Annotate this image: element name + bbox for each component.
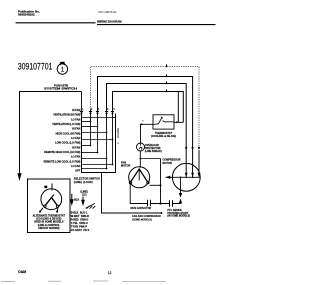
wire drop to thermostat: [177, 92, 179, 123]
alternate thermostat dial: [39, 184, 62, 213]
svg-text:3: 3: [107, 109, 109, 111]
footer scan marks: [1, 280, 166, 283]
svg-text:LO FAN: LO FAN: [71, 165, 80, 168]
svg-text:HI FAN: HI FAN: [72, 146, 80, 149]
inner verticals: [91, 122, 113, 169]
wire thermostat left: [141, 124, 154, 143]
connector down arrow: [179, 193, 182, 198]
PTC label: [167, 209, 190, 218]
switch feed wires: [82, 92, 113, 140]
svg-text:P/N 13971A0: P/N 13971A0: [98, 10, 116, 14]
svg-text:309107701: 309107701: [18, 62, 53, 73]
svg-text:LO FAN: LO FAN: [71, 118, 80, 121]
svg-text:1: 1: [61, 67, 65, 74]
svg-text:LO FAN: LO FAN: [71, 137, 80, 140]
header rule right: [97, 24, 216, 26]
wire cap2 to connector: [173, 200, 181, 204]
node drops on loop tops to thermostat: [166, 64, 168, 91]
legend color code: [71, 211, 90, 232]
fan lead to capacitor: [130, 184, 147, 204]
thermostat box: [153, 115, 174, 129]
switch rungs: [82, 118, 116, 169]
svg-text:LOW COOL (LO FAN): LOW COOL (LO FAN): [55, 142, 80, 145]
circled 1 callout: [57, 62, 67, 74]
header rule: [16, 22, 96, 24]
fan motor: [129, 166, 150, 188]
loop D: [113, 92, 184, 123]
header publication text: [18, 10, 40, 17]
svg-text:HI FAN: HI FAN: [72, 128, 80, 131]
svg-text:12: 12: [108, 271, 112, 275]
svg-text:W: W: [142, 121, 145, 123]
overload label: [145, 144, 162, 153]
wire cap1 to cap2: [151, 203, 170, 205]
svg-text:BLK: BLK: [74, 199, 79, 202]
svg-text:CIRCUIT SHOWN): CIRCUIT SHOWN): [38, 227, 59, 230]
branch to capacitor riser: [141, 158, 161, 160]
svg-text:(IN SOME MODELS): (IN SOME MODELS): [167, 215, 190, 218]
svg-text:GY-GRAY PR-V: GY-GRAY PR-V: [71, 229, 90, 232]
power cord wire: [20, 92, 82, 174]
svg-text:MOTOR: MOTOR: [121, 165, 130, 168]
switch box: [82, 114, 116, 173]
svg-text:SYSTEM SWITCH: SYSTEM SWITCH: [44, 88, 77, 91]
svg-text:1: 1: [91, 109, 93, 111]
svg-text:MOTOR: MOTOR: [163, 162, 172, 165]
loop C: [107, 84, 187, 177]
svg-text:OFF: OFF: [75, 170, 80, 173]
svg-text:2: 2: [98, 109, 100, 111]
svg-text:SWITCH: SWITCH: [116, 128, 119, 138]
chassis ground symbol: [86, 203, 96, 208]
svg-text:HI FAN: HI FAN: [72, 109, 80, 112]
connector up arrow: [179, 199, 182, 204]
run capacitor 2: [170, 200, 173, 206]
fan aux wire: [150, 184, 161, 186]
alternate thermostat inset box: [28, 179, 71, 233]
svg-text:(2X): (2X): [82, 194, 87, 197]
svg-text:W: W: [117, 143, 120, 145]
svg-text:(LINE) (LOAD): (LINE) (LOAD): [74, 180, 93, 184]
svg-text:(LINE BREAK): (LINE BREAK): [145, 150, 162, 153]
svg-text:RUN CAPACITOR: RUN CAPACITOR: [131, 207, 152, 210]
compressor start drop: [180, 177, 182, 194]
svg-text:(COOLING & DE-ICE): (COOLING & DE-ICE): [151, 135, 176, 138]
svg-text:VENTILATION (LO FAN): VENTILATION (LO FAN): [52, 123, 80, 126]
terminal ticks: [80, 111, 114, 113]
svg-text:(SOME MODELS): (SOME MODELS): [132, 218, 152, 221]
svg-text:WIRING DIAGRAM: WIRING DIAGRAM: [97, 20, 122, 24]
svg-text:SELECTOR SWITCH: SELECTOR SWITCH: [74, 177, 100, 181]
overload protector: [137, 143, 145, 151]
svg-text:O&M: O&M: [18, 270, 26, 274]
wire overload to fan: [139, 151, 141, 167]
capacitor riser: [160, 159, 162, 204]
switch function labels: [44, 109, 81, 173]
chassis rail: [102, 173, 162, 214]
wire thermostat right: [174, 121, 183, 123]
svg-text:LO FAN: LO FAN: [71, 156, 80, 159]
svg-text:L: L: [82, 109, 84, 111]
inset caption: [33, 214, 66, 230]
thermostat symbol: [153, 117, 174, 125]
compressor motor: [165, 163, 200, 191]
svg-text:REMOTE HIGH COOL (HI FAN): REMOTE HIGH COOL (HI FAN): [44, 151, 80, 154]
run capacitor 1: [148, 200, 151, 206]
plug detail: [70, 190, 88, 206]
svg-text:REMOTE LOW COOL (LO FAN): REMOTE LOW COOL (LO FAN): [44, 160, 81, 163]
power cord arrowhead: [17, 173, 21, 181]
loop B: [98, 77, 193, 177]
svg-text:HIGH COOL (HI FAN): HIGH COOL (HI FAN): [56, 132, 81, 135]
compressor feed wires: [185, 147, 201, 178]
rung junction dots: [90, 121, 114, 170]
terminal labels: [82, 109, 115, 111]
svg-text:4: 4: [113, 109, 115, 111]
loop A (outer, dotted): [91, 67, 200, 151]
svg-text:VENTILATION (HI FAN): VENTILATION (HI FAN): [53, 114, 80, 117]
svg-text:5995248292: 5995248292: [18, 13, 35, 17]
